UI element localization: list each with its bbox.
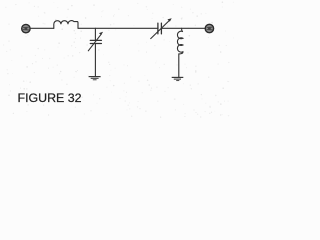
wire J1 to L1 <box>30 27 53 29</box>
variable capacitor C2 (series, with arrow) <box>151 18 172 38</box>
inductor L1 (series coil) <box>54 21 78 29</box>
wire node A down to C1 <box>94 28 96 40</box>
wire C1 to ground <box>94 44 96 77</box>
terminal J1 (left input terminal) <box>22 24 30 32</box>
ground (right) <box>172 77 184 80</box>
svg-text:FIGURE 32: FIGURE 32 <box>18 91 82 105</box>
variable capacitor C1 (shunt, with arrow) <box>88 32 103 51</box>
ground (left) <box>89 77 101 80</box>
inductor L2 (shunt coil from node B, with wire to ground) <box>177 28 182 77</box>
terminal J2 (right output terminal) <box>205 24 213 32</box>
wire L1 to C2 through node A <box>78 27 158 29</box>
wire C2 to J2 through node B <box>161 27 205 29</box>
